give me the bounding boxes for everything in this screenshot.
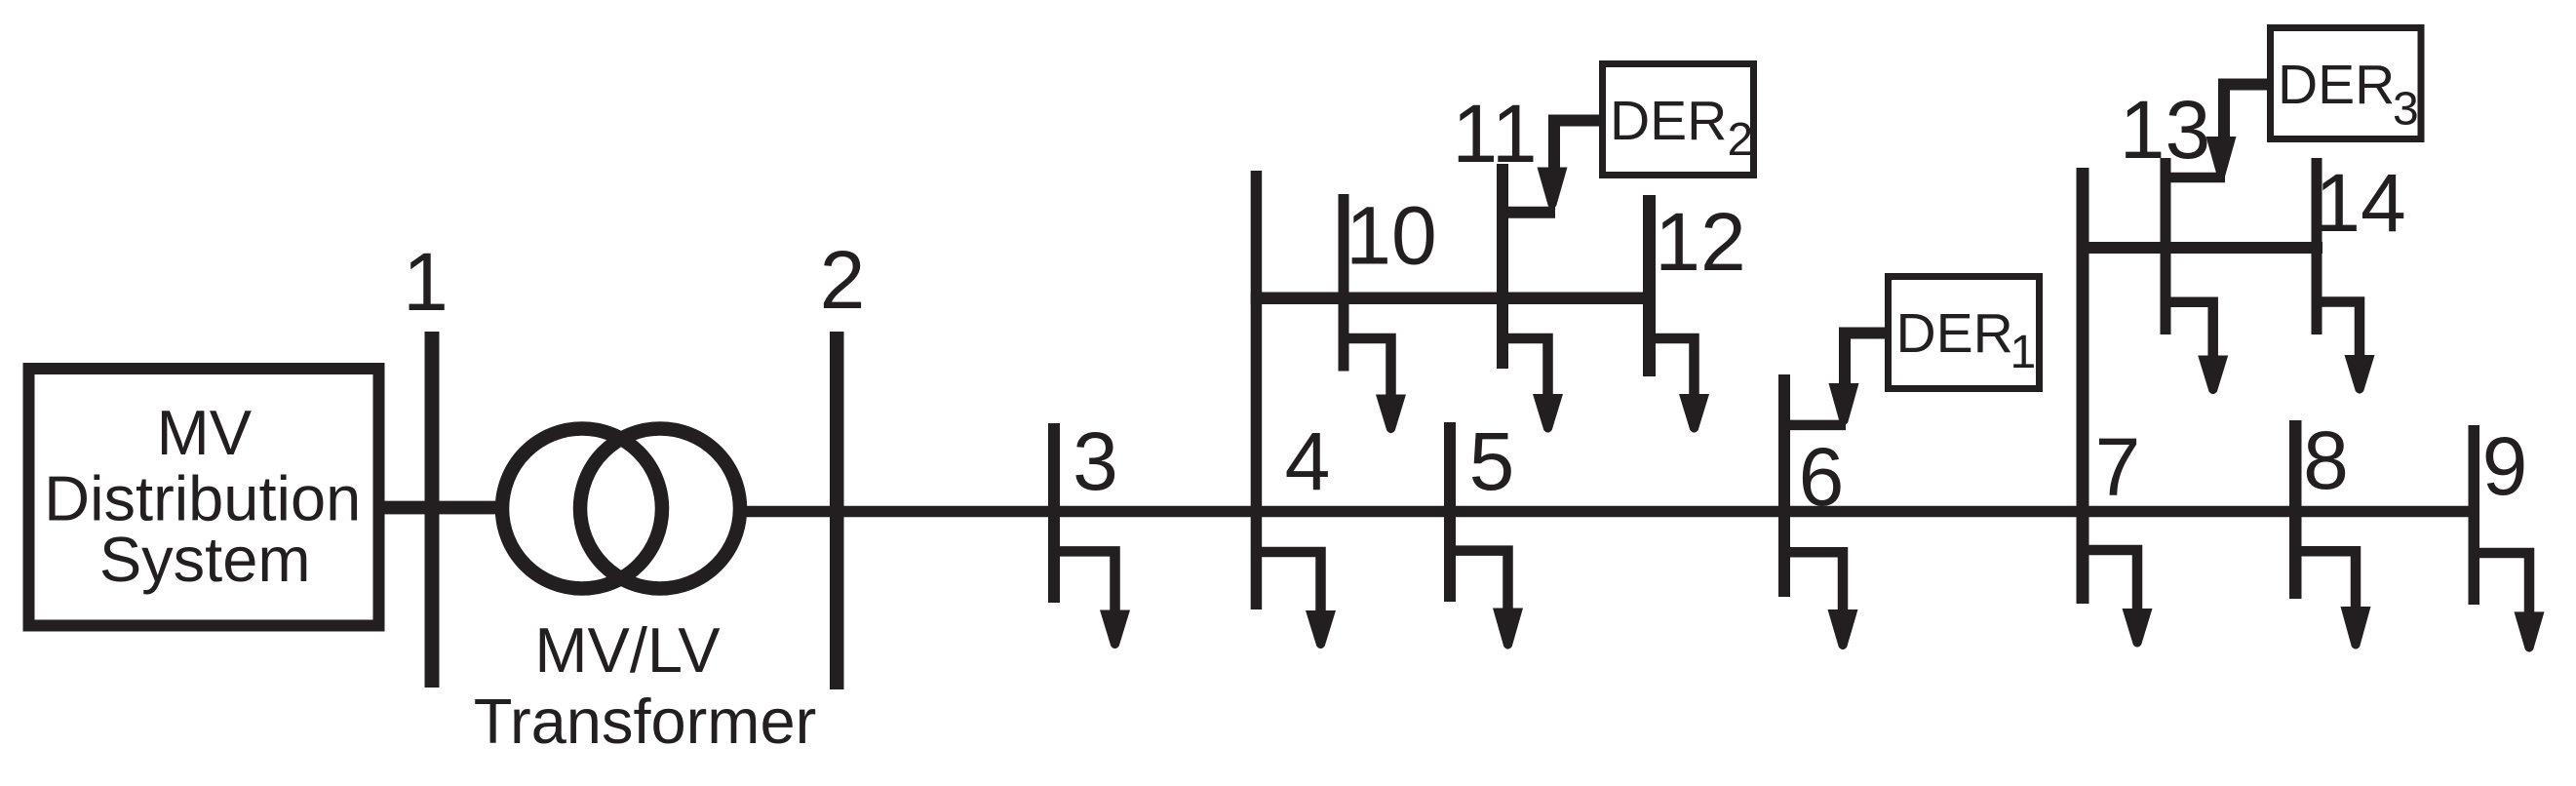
- MV Distribution System box: [29, 369, 379, 626]
- bus 9: [2469, 425, 2480, 605]
- bus 3: [1048, 423, 1060, 603]
- bus 2: [830, 332, 844, 689]
- load at bus 11: [1503, 338, 1563, 433]
- MV/LV Transformer text: [474, 614, 817, 757]
- load at bus 3: [1054, 551, 1130, 648]
- load at bus 7: [2083, 550, 2153, 648]
- DER1 box: [1889, 277, 2040, 389]
- svg-text:Transformer: Transformer: [474, 686, 817, 757]
- bus 8: [2289, 420, 2302, 599]
- svg-text:12: 12: [1655, 196, 1745, 288]
- DER3 box: [2271, 28, 2422, 139]
- svg-text:MV: MV: [157, 397, 253, 468]
- svg-text:2: 2: [820, 234, 866, 326]
- load at bus 9: [2474, 553, 2545, 652]
- svg-text:2: 2: [1728, 114, 1754, 166]
- DER1 connection wire and arrow: [1784, 334, 1888, 425]
- svg-text:10: 10: [1346, 190, 1436, 282]
- svg-text:13: 13: [2120, 84, 2210, 176]
- DER2 label: [1610, 90, 1753, 166]
- bus 12: [1643, 195, 1656, 376]
- DER2 connection wire and arrow: [1503, 121, 1603, 213]
- load at bus 5: [1450, 551, 1523, 649]
- svg-text:MV/LV: MV/LV: [534, 614, 721, 686]
- bus 11: [1497, 164, 1508, 369]
- wire lateral bus4 to bus12: [1251, 293, 1656, 305]
- load at bus 8: [2295, 551, 2371, 648]
- DER3 connection wire and arrow: [2166, 85, 2270, 178]
- bus 4 riser: [1251, 171, 1263, 609]
- svg-text:3: 3: [2393, 84, 2419, 136]
- svg-text:System: System: [99, 524, 311, 595]
- load at bus 12: [1650, 338, 1710, 433]
- load at bus 6: [1784, 552, 1858, 649]
- svg-text:DER: DER: [2278, 54, 2395, 116]
- wire lateral bus7 to bus14: [2077, 242, 2323, 254]
- bus 5: [1444, 422, 1456, 602]
- wire from MV box to transformer: [383, 501, 585, 515]
- wire main feeder bus2 to bus9: [653, 506, 2479, 518]
- svg-text:8: 8: [2303, 414, 2349, 506]
- svg-text:DER: DER: [1610, 90, 1727, 152]
- load at bus 14: [2317, 302, 2375, 394]
- DER3 label: [2278, 54, 2419, 136]
- MV Distribution System text: [44, 397, 361, 595]
- DER2 box: [1603, 64, 1754, 176]
- svg-text:3: 3: [1073, 415, 1118, 507]
- svg-text:11: 11: [1452, 88, 1537, 179]
- svg-text:7: 7: [2095, 421, 2141, 513]
- bus 14: [2312, 158, 2322, 334]
- svg-text:DER: DER: [1896, 302, 2013, 365]
- load at bus 13: [2166, 302, 2228, 394]
- svg-text:6: 6: [1799, 431, 1845, 523]
- svg-text:4: 4: [1285, 415, 1331, 507]
- DER1 label: [1896, 302, 2037, 378]
- svg-text:5: 5: [1469, 415, 1515, 507]
- svg-text:9: 9: [2482, 420, 2528, 512]
- svg-text:1: 1: [2010, 327, 2037, 378]
- bus 1: [425, 332, 440, 688]
- transformer T1 MV/LV (two overlapping circles): [495, 422, 747, 596]
- svg-text:14: 14: [2315, 157, 2405, 249]
- bus 6: [1778, 374, 1790, 597]
- bus 13: [2161, 158, 2171, 334]
- bus 10: [1339, 194, 1349, 372]
- load at bus 10: [1344, 338, 1406, 433]
- load at bus 4: [1257, 552, 1337, 648]
- svg-text:1: 1: [403, 236, 449, 328]
- bus 7 riser: [2077, 168, 2089, 604]
